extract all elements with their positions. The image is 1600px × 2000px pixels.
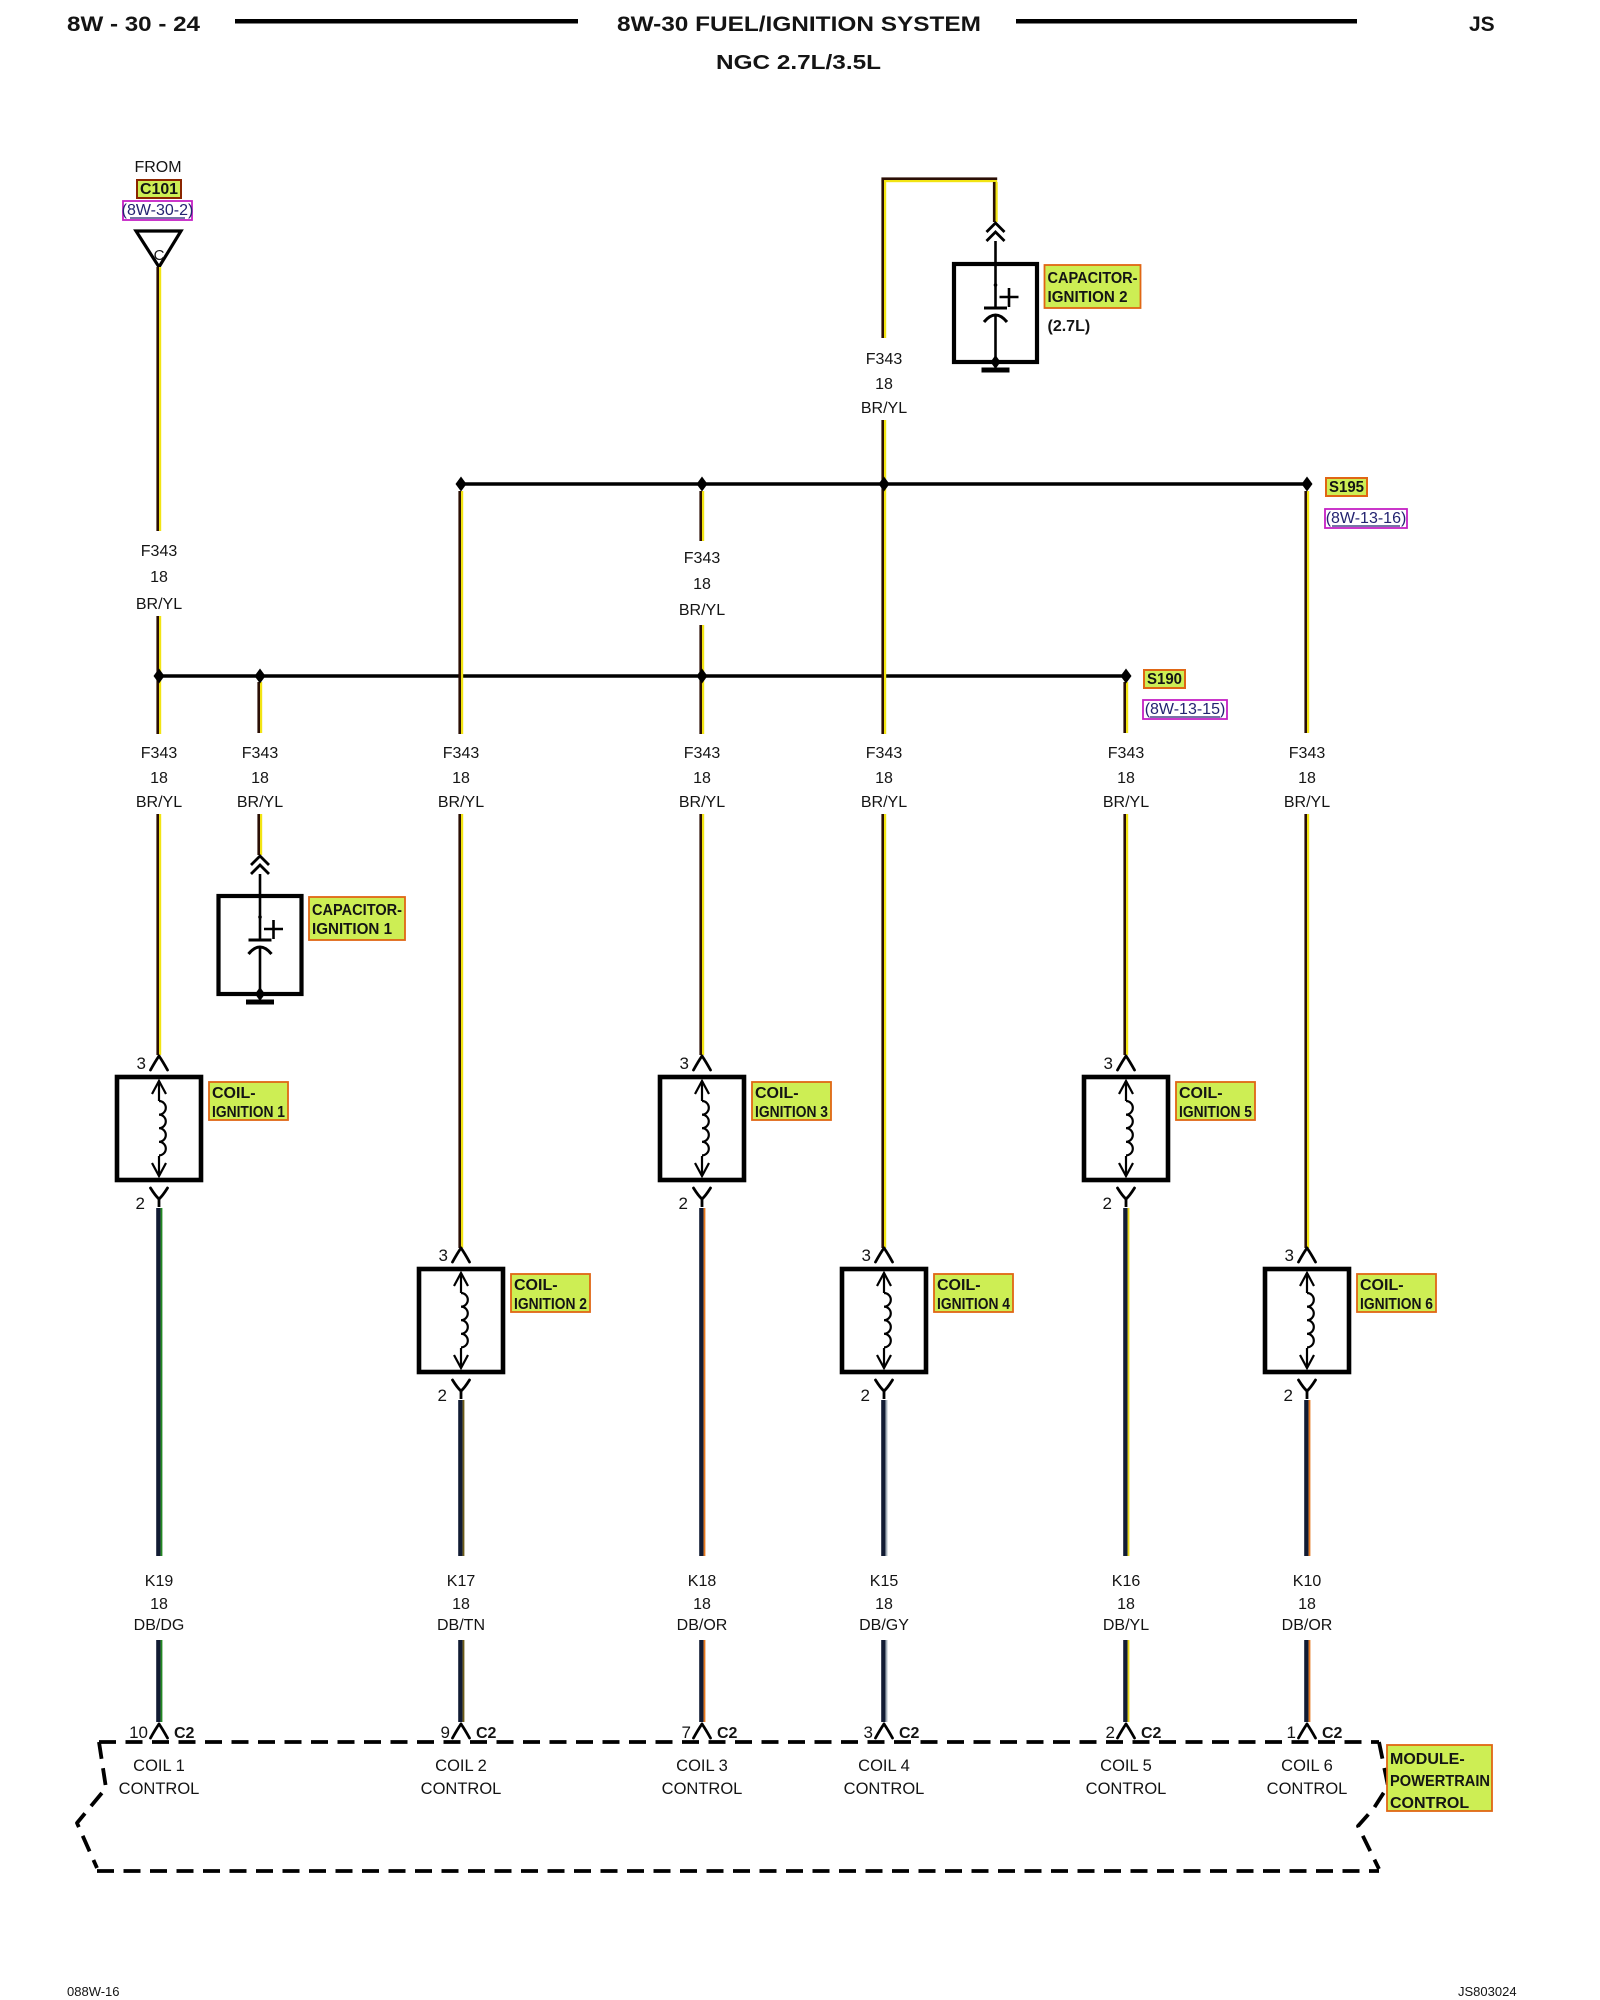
svg-text:K15: K15 [870,1573,899,1590]
svg-text:CONTROL: CONTROL [662,1780,743,1798]
svg-text:CAPACITOR-: CAPACITOR- [1048,270,1138,287]
svg-text:(2.7L): (2.7L) [1048,318,1091,335]
svg-text:NGC 2.7L/3.5L: NGC 2.7L/3.5L [716,52,881,74]
svg-text:DB/OR: DB/OR [677,1617,728,1634]
svg-text:BR/YL: BR/YL [136,794,182,811]
svg-text:F343: F343 [141,745,178,762]
svg-text:COIL 6: COIL 6 [1281,1757,1333,1775]
svg-text:(8W-13-16): (8W-13-16) [1326,510,1407,527]
svg-text:18: 18 [150,770,168,787]
svg-text:COIL 5: COIL 5 [1100,1757,1152,1775]
svg-text:COIL-: COIL- [514,1277,558,1294]
svg-text:COIL 1: COIL 1 [133,1757,185,1775]
svg-text:2: 2 [679,1194,688,1213]
svg-text:JS803024: JS803024 [1458,1984,1517,1999]
svg-text:BR/YL: BR/YL [1284,794,1330,811]
svg-text:BR/YL: BR/YL [861,794,907,811]
svg-text:088W-16: 088W-16 [67,1984,120,1999]
svg-text:BR/YL: BR/YL [861,400,907,417]
svg-text:7: 7 [682,1723,691,1742]
svg-text:K18: K18 [688,1573,717,1590]
svg-text:CONTROL: CONTROL [1086,1780,1167,1798]
svg-text:18: 18 [1298,770,1316,787]
svg-text:COIL-: COIL- [1360,1277,1404,1294]
svg-text:C101: C101 [140,181,178,198]
svg-text:3: 3 [864,1723,873,1742]
svg-text:K17: K17 [447,1573,476,1590]
svg-text:IGNITION 5: IGNITION 5 [1179,1104,1252,1121]
svg-text:S195: S195 [1329,479,1364,496]
svg-text:18: 18 [1298,1596,1316,1613]
svg-text:COIL 2: COIL 2 [435,1757,487,1775]
svg-text:DB/DG: DB/DG [134,1617,185,1634]
svg-text:F343: F343 [141,543,178,560]
svg-text:CONTROL: CONTROL [119,1780,200,1798]
svg-text:18: 18 [693,770,711,787]
svg-text:MODULE-: MODULE- [1390,1751,1465,1768]
svg-text:C2: C2 [476,1725,497,1742]
svg-text:3: 3 [862,1246,871,1265]
svg-text:8W-30 FUEL/IGNITION SYSTEM: 8W-30 FUEL/IGNITION SYSTEM [617,13,981,36]
svg-text:C2: C2 [899,1725,920,1742]
svg-text:18: 18 [693,576,711,593]
svg-text:2: 2 [1106,1723,1115,1742]
svg-text:C2: C2 [1141,1725,1162,1742]
svg-text:CONTROL: CONTROL [1390,1795,1469,1812]
svg-text:COIL-: COIL- [755,1085,799,1102]
svg-text:BR/YL: BR/YL [1103,794,1149,811]
svg-text:COIL 3: COIL 3 [676,1757,728,1775]
svg-text:F343: F343 [1108,745,1145,762]
svg-text:(8W-30-2): (8W-30-2) [122,202,194,219]
svg-text:DB/YL: DB/YL [1103,1617,1149,1634]
svg-text:BR/YL: BR/YL [679,794,725,811]
svg-text:18: 18 [693,1596,711,1613]
svg-text:18: 18 [150,569,168,586]
svg-text:BR/YL: BR/YL [237,794,283,811]
svg-text:IGNITION 6: IGNITION 6 [1360,1296,1433,1313]
svg-text:DB/OR: DB/OR [1282,1617,1333,1634]
svg-text:BR/YL: BR/YL [438,794,484,811]
svg-text:2: 2 [1103,1194,1112,1213]
svg-text:18: 18 [452,770,470,787]
svg-text:10: 10 [129,1723,148,1742]
svg-text:K19: K19 [145,1573,174,1590]
svg-text:18: 18 [1117,770,1135,787]
svg-text:IGNITION 2: IGNITION 2 [514,1296,587,1313]
svg-text:F343: F343 [866,745,903,762]
svg-text:C2: C2 [717,1725,738,1742]
svg-text:K16: K16 [1112,1573,1141,1590]
svg-text:3: 3 [1104,1054,1113,1073]
svg-text:COIL-: COIL- [937,1277,981,1294]
svg-text:18: 18 [875,1596,893,1613]
svg-text:IGNITION 2: IGNITION 2 [1048,289,1128,306]
svg-text:2: 2 [861,1386,870,1405]
svg-text:F343: F343 [866,351,903,368]
svg-text:CONTROL: CONTROL [1267,1780,1348,1798]
svg-text:F343: F343 [1289,745,1326,762]
svg-text:3: 3 [137,1054,146,1073]
svg-text:F343: F343 [684,745,721,762]
svg-text:3: 3 [1285,1246,1294,1265]
svg-text:C2: C2 [1322,1725,1343,1742]
svg-text:BR/YL: BR/YL [136,596,182,613]
svg-text:IGNITION 4: IGNITION 4 [937,1296,1010,1313]
svg-text:18: 18 [452,1596,470,1613]
svg-text:2: 2 [136,1194,145,1213]
svg-text:1: 1 [1287,1723,1296,1742]
svg-text:3: 3 [439,1246,448,1265]
svg-text:IGNITION 1: IGNITION 1 [212,1104,285,1121]
svg-text:CONTROL: CONTROL [421,1780,502,1798]
svg-text:18: 18 [875,376,893,393]
svg-text:BR/YL: BR/YL [679,602,725,619]
svg-text:COIL 4: COIL 4 [858,1757,910,1775]
svg-text:S190: S190 [1147,671,1182,688]
svg-text:18: 18 [251,770,269,787]
svg-text:2: 2 [438,1386,447,1405]
svg-text:CONTROL: CONTROL [844,1780,925,1798]
svg-text:18: 18 [150,1596,168,1613]
svg-text:18: 18 [1117,1596,1135,1613]
svg-text:F343: F343 [443,745,480,762]
svg-text:9: 9 [441,1723,450,1742]
svg-text:COIL-: COIL- [212,1085,256,1102]
svg-text:K10: K10 [1293,1573,1322,1590]
svg-text:DB/GY: DB/GY [859,1617,909,1634]
svg-text:JS: JS [1469,13,1495,36]
svg-text:POWERTRAIN: POWERTRAIN [1390,1773,1490,1790]
svg-text:2: 2 [1284,1386,1293,1405]
svg-text:F343: F343 [242,745,279,762]
svg-text:FROM: FROM [134,159,181,176]
svg-text:CAPACITOR-: CAPACITOR- [312,902,402,919]
svg-text:C2: C2 [174,1725,195,1742]
svg-text:(8W-13-15): (8W-13-15) [1145,701,1226,718]
svg-text:3: 3 [680,1054,689,1073]
svg-text:8W - 30 - 24: 8W - 30 - 24 [67,13,200,36]
svg-text:IGNITION 3: IGNITION 3 [755,1104,828,1121]
svg-text:IGNITION 1: IGNITION 1 [312,921,392,938]
svg-text:C: C [154,247,165,264]
svg-text:18: 18 [875,770,893,787]
svg-text:COIL-: COIL- [1179,1085,1223,1102]
svg-text:DB/TN: DB/TN [437,1617,485,1634]
svg-text:F343: F343 [684,550,721,567]
